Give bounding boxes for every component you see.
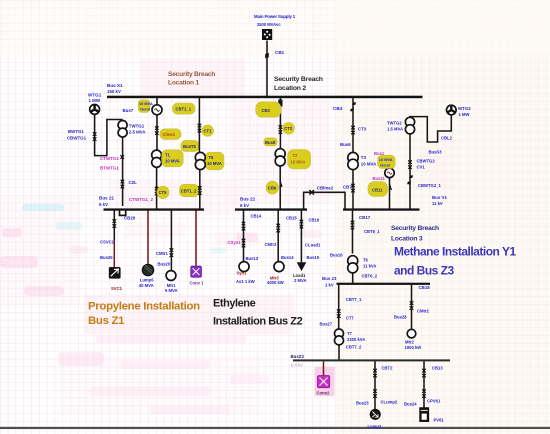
wire Bus 21 to Lump5 xyxy=(147,211,149,265)
svg-text:Lump5: Lump5 xyxy=(140,278,154,283)
svg-text:1 MW: 1 MW xyxy=(89,98,101,103)
wire Gen2 to Bus Y1 xyxy=(389,178,391,210)
svg-text:Mtr2: Mtr2 xyxy=(405,340,415,345)
svg-text:CB13: CB13 xyxy=(432,366,443,371)
svg-text:CBT7_2: CBT7_2 xyxy=(346,345,362,350)
label 10 MVA Gen3 xyxy=(138,100,150,113)
svg-text:and Bus Z3: and Bus Z3 xyxy=(394,264,455,278)
svg-text:CBL2: CBL2 xyxy=(441,136,453,141)
motor Mtr2 xyxy=(407,329,416,338)
wire Bus 21 to SVC1 xyxy=(113,211,115,241)
wire WTG2 to TWTG2 xyxy=(410,115,451,142)
generator Gen3 xyxy=(152,105,162,115)
svg-text:Bus27: Bus27 xyxy=(320,322,333,327)
svg-text:10 MVA: 10 MVA xyxy=(207,161,222,166)
svg-text:CBT2: CBT2 xyxy=(382,366,394,371)
section text: Propylene Installation Bus Z1 xyxy=(88,301,200,328)
svg-text:Location 2: Location 2 xyxy=(274,85,306,92)
svg-text:BusT5: BusT5 xyxy=(183,144,196,149)
svg-text:Bus20: Bus20 xyxy=(158,262,171,267)
svg-text:Cline1: Cline1 xyxy=(163,132,176,137)
svg-text:2 MVA: 2 MVA xyxy=(294,278,307,283)
motor Mtr3 xyxy=(274,262,284,272)
svg-text:CT2: CT2 xyxy=(284,126,293,131)
svg-text:CB11: CB11 xyxy=(372,188,383,193)
svg-text:Bus1: Bus1 xyxy=(374,151,385,156)
svg-text:Gen2: Gen2 xyxy=(380,162,391,167)
svg-text:CT7: CT7 xyxy=(346,316,355,321)
svg-text:CBT7_1: CBT7_1 xyxy=(346,297,362,302)
transformer T7 xyxy=(335,329,344,345)
svg-text:CBline2: CBline2 xyxy=(317,186,334,191)
breaker CB6 open xyxy=(280,182,282,188)
breaker CBT1_1 label xyxy=(173,103,196,114)
breaker CB11 label xyxy=(368,182,388,197)
svg-text:CV1: CV1 xyxy=(417,165,426,170)
svg-text:Propylene Installation: Propylene Installation xyxy=(88,301,200,313)
svg-text:Gen3: Gen3 xyxy=(140,107,151,112)
svg-text:5 MVA: 5 MVA xyxy=(165,288,178,293)
label 10 MVA Gen2 xyxy=(378,155,396,168)
wire T6 to Bus Z3 xyxy=(352,273,354,284)
svg-text:T2: T2 xyxy=(293,153,299,158)
generator Gen2 xyxy=(385,168,394,177)
label T5 10 MVA xyxy=(205,152,224,170)
wire Bus Z2 to PV61 xyxy=(423,361,425,408)
svg-text:CB7: CB7 xyxy=(343,185,352,190)
svg-text:CT5: CT5 xyxy=(159,190,168,195)
section text: Methane Installation Y1 and Bus Z3 xyxy=(394,245,516,278)
breaker CB3 closed xyxy=(278,100,282,107)
svg-text:1.5 MVA: 1.5 MVA xyxy=(387,127,403,132)
svg-text:Bus11: Bus11 xyxy=(373,176,386,181)
transformer T1 xyxy=(152,150,162,167)
wire Bus Z3 to Mtr2 xyxy=(411,285,413,329)
svg-text:CB1: CB1 xyxy=(275,50,285,55)
svg-text:11 kVA: 11 kVA xyxy=(363,264,376,269)
svg-text:Main Power Supply 1: Main Power Supply 1 xyxy=(254,14,296,19)
svg-text:CBT6_1: CBT6_1 xyxy=(364,229,380,234)
svg-text:Security Breach: Security Breach xyxy=(168,71,215,78)
svg-text:TWTG1: TWTG1 xyxy=(129,124,145,129)
svg-text:0.4 kV: 0.4 kV xyxy=(291,363,303,368)
svg-text:WTG2: WTG2 xyxy=(458,106,471,111)
wire Bus X1 to T3 xyxy=(352,97,354,152)
svg-text:CB14: CB14 xyxy=(251,214,262,219)
node BusT5 label xyxy=(181,140,199,151)
svg-text:PV61: PV61 xyxy=(434,418,445,423)
PV array PV61 xyxy=(420,408,429,422)
svg-text:CB17: CB17 xyxy=(359,215,371,220)
svg-text:Bus Z1: Bus Z1 xyxy=(88,315,125,327)
svg-text:BTWTG1: BTWTG1 xyxy=(100,166,119,171)
transformer T2 xyxy=(275,149,285,166)
svg-text:CBT1_2: CBT1_2 xyxy=(181,189,197,194)
section text: Security Breach Location 3 xyxy=(391,225,439,243)
wire T1 to Bus 21 xyxy=(156,167,158,209)
svg-text:CT1: CT1 xyxy=(204,129,213,134)
svg-text:CB15: CB15 xyxy=(286,216,297,221)
transformer T3 xyxy=(348,152,358,169)
svg-text:TWTG2: TWTG2 xyxy=(387,121,402,126)
svg-text:Bus 21: Bus 21 xyxy=(99,196,115,201)
node Bus8 label xyxy=(264,138,277,146)
wire T7 to Bus Z2 xyxy=(338,345,340,361)
wire Bus 22 to Syn1 xyxy=(243,211,245,262)
load Load1 xyxy=(297,262,307,271)
svg-text:Security Breach: Security Breach xyxy=(391,225,439,232)
section text: Security Breach Location 1 xyxy=(168,71,215,87)
bus Bus Y1 11 kV xyxy=(343,208,420,210)
wire TWTG2 to Bus Y1 xyxy=(409,134,411,210)
utility grid U1 Main Power Supply 1 xyxy=(254,14,296,40)
svg-text:10 MVA: 10 MVA xyxy=(139,101,153,106)
converter Conv2 xyxy=(318,376,330,388)
svg-text:BusZ2: BusZ2 xyxy=(291,354,305,359)
pink highlight behind Conv2 xyxy=(315,367,335,397)
transformer T6 xyxy=(348,256,358,273)
svg-text:CBWTG2_1: CBWTG2_1 xyxy=(418,183,441,188)
svg-text:2.5 MVA: 2.5 MVA xyxy=(129,130,147,135)
svg-text:Bus24: Bus24 xyxy=(404,402,417,407)
breaker CBT1_2 label xyxy=(179,184,198,196)
wind turbine WTG2 xyxy=(447,105,472,117)
svg-text:Syn1: Syn1 xyxy=(237,271,248,276)
wire T3 to Bus Y1 xyxy=(352,169,354,209)
motor Mtr1 xyxy=(166,271,176,281)
wire utility to Bus X1 xyxy=(266,41,268,97)
synchronous machine Syn1 xyxy=(239,262,249,272)
SVC SVC1 xyxy=(109,267,121,279)
fuse CB20 on Bus 21 xyxy=(120,210,126,216)
wire Gen3 to T1 xyxy=(156,97,158,150)
label T2 10 MVA xyxy=(288,150,311,169)
wire Bus X1 to T5 xyxy=(198,97,200,152)
svg-text:Location 1: Location 1 xyxy=(168,79,200,86)
breaker C2L marks xyxy=(121,180,125,189)
svg-text:Lump2: Lump2 xyxy=(368,424,382,429)
bus Bus 22 6 kV xyxy=(235,208,307,210)
svg-text:1000 kW: 1000 kW xyxy=(405,345,422,350)
svg-text:Bus23: Bus23 xyxy=(356,401,369,406)
svg-text:6 kV: 6 kV xyxy=(240,203,249,208)
svg-text:CBT6_2: CBT6_2 xyxy=(362,274,378,279)
svg-text:Bus X1: Bus X1 xyxy=(107,83,123,88)
svg-text:CLoad1: CLoad1 xyxy=(305,243,321,248)
svg-text:CB4: CB4 xyxy=(333,106,343,111)
svg-text:T6: T6 xyxy=(363,258,369,263)
svg-text:CSyn1: CSyn1 xyxy=(228,240,242,245)
svg-text:CB20: CB20 xyxy=(124,216,136,221)
wire Bus 22 to Load1 xyxy=(300,211,302,263)
breaker CB1 xyxy=(265,53,269,59)
svg-text:CTWTG1_2: CTWTG1_2 xyxy=(129,197,154,202)
svg-text:Bus16: Bus16 xyxy=(330,253,343,258)
wire T2 to Bus 22 xyxy=(279,166,281,210)
svg-text:CB6: CB6 xyxy=(268,186,277,191)
svg-text:T1: T1 xyxy=(165,153,171,158)
bus Bus X1 150kV xyxy=(107,96,423,99)
svg-text:Bus28: Bus28 xyxy=(394,315,407,320)
svg-text:CLump2: CLump2 xyxy=(381,400,398,405)
wire Bus Y1 to T6 xyxy=(352,211,354,254)
svg-text:CBT1_1: CBT1_1 xyxy=(176,107,192,112)
svg-text:T3: T3 xyxy=(361,155,367,160)
svg-text:Location 3: Location 3 xyxy=(391,236,423,243)
wire WTG1 down loop to TWTG1 xyxy=(95,114,123,155)
CT CT2 label xyxy=(283,122,295,134)
svg-text:1 kV: 1 kV xyxy=(325,283,334,288)
svg-text:Installation Bus Z2: Installation Bus Z2 xyxy=(213,316,303,328)
section text: Ethylene Installation Bus Z2 xyxy=(213,298,303,328)
lumped load Lump5 xyxy=(142,264,153,275)
svg-text:Bus7: Bus7 xyxy=(123,108,134,113)
svg-text:Security Breach: Security Breach xyxy=(274,76,323,83)
svg-text:T7: T7 xyxy=(347,331,353,336)
line Cline1 label xyxy=(160,129,181,140)
svg-text:4000 kW: 4000 kW xyxy=(267,280,284,285)
svg-text:10 MVA: 10 MVA xyxy=(165,159,180,164)
svg-text:Bus14: Bus14 xyxy=(281,255,294,260)
transformer T5 xyxy=(195,152,205,169)
wire T5 to Bus 21 xyxy=(199,170,201,210)
svg-text:Methane Installation Y1: Methane Installation Y1 xyxy=(394,245,516,259)
transformer TWTG2 xyxy=(387,117,415,134)
svg-text:10 MVA: 10 MVA xyxy=(379,157,393,162)
bottom frame line xyxy=(0,427,550,429)
transformer TWTG1 xyxy=(118,121,146,138)
wire Bus 21 to Conv1 xyxy=(195,211,197,267)
svg-text:Bus6: Bus6 xyxy=(340,142,351,147)
wire Bus Z2 to Conv2 xyxy=(323,361,325,375)
wire Bus X1 to T2 xyxy=(279,97,281,149)
svg-text:C2L: C2L xyxy=(129,180,138,185)
svg-text:CT3: CT3 xyxy=(358,127,367,132)
svg-text:11 kV: 11 kV xyxy=(432,201,443,206)
tie wire Bus 22 to Bus Y1 CBline2 xyxy=(304,192,345,209)
wind turbine WTG1 xyxy=(88,93,102,115)
svg-text:CMtr3: CMtr3 xyxy=(265,242,278,247)
converter Conv1 xyxy=(191,266,202,277)
svg-text:CSVC1: CSVC1 xyxy=(100,240,115,245)
svg-text:150 kV: 150 kV xyxy=(107,89,121,94)
svg-text:Conv2: Conv2 xyxy=(317,391,330,396)
pink wash artifacts xyxy=(0,58,460,415)
wire TWTG1 down to Bus 21 xyxy=(122,137,124,206)
bus Bus 21 6 kV xyxy=(104,208,205,210)
svg-text:Bus25: Bus25 xyxy=(100,255,113,260)
wire Bus Z2 to Lump2 xyxy=(374,361,376,409)
svg-text:CBWTG1: CBWTG1 xyxy=(67,136,87,141)
svg-text:Bus15: Bus15 xyxy=(307,255,320,260)
svg-text:40 MVA: 40 MVA xyxy=(139,283,154,288)
svg-text:BWTG1: BWTG1 xyxy=(68,129,84,134)
label T1 10 MVA xyxy=(162,150,183,167)
svg-text:Bus8: Bus8 xyxy=(265,140,276,145)
bus Bus Z3 1 kV xyxy=(337,283,431,285)
svg-text:1 MW: 1 MW xyxy=(459,112,470,117)
svg-text:Bus13: Bus13 xyxy=(246,256,259,261)
svg-text:CPV61: CPV61 xyxy=(427,399,441,404)
svg-text:10 MVA: 10 MVA xyxy=(291,160,306,165)
bus Bus Z2 0.4 kV xyxy=(293,359,450,361)
svg-text:CMtr2: CMtr2 xyxy=(417,309,430,314)
svg-text:Bus 22: Bus 22 xyxy=(240,197,256,202)
svg-text:2500 MVAsc: 2500 MVAsc xyxy=(257,22,281,27)
svg-text:Bus 23: Bus 23 xyxy=(322,276,337,281)
section text: Security Breach Location 2 xyxy=(274,76,323,92)
svg-text:Ax1 1 kW: Ax1 1 kW xyxy=(236,279,255,284)
CT CT5 label xyxy=(157,186,169,199)
svg-text:Conv 1: Conv 1 xyxy=(190,281,205,286)
svg-text:CBWTG2: CBWTG2 xyxy=(417,159,436,164)
svg-text:CB18: CB18 xyxy=(419,285,431,290)
wire Bus 22 to Mtr3 xyxy=(277,211,279,262)
svg-text:2200 kVA: 2200 kVA xyxy=(347,337,365,342)
svg-text:CMtr1: CMtr1 xyxy=(156,251,169,256)
svg-text:CB16: CB16 xyxy=(309,218,320,223)
svg-text:Bus V1: Bus V1 xyxy=(432,195,447,200)
breaker BWTG1 marks xyxy=(93,132,97,141)
wire Bus Z3 to T7 xyxy=(338,285,340,329)
svg-text:SVC1: SVC1 xyxy=(111,286,123,291)
wire Bus 21 to Mtr1 xyxy=(170,211,172,271)
svg-text:Ethylene: Ethylene xyxy=(213,298,256,310)
svg-text:BusS3: BusS3 xyxy=(429,150,443,155)
svg-text:CB3: CB3 xyxy=(262,108,271,113)
lumped load Lump2 xyxy=(370,409,380,419)
svg-text:CTWTG1: CTWTG1 xyxy=(100,156,119,161)
svg-text:WTG1: WTG1 xyxy=(88,93,102,98)
svg-text:6 kV: 6 kV xyxy=(99,202,108,207)
svg-text:T5: T5 xyxy=(209,155,215,160)
svg-text:10 MVA: 10 MVA xyxy=(361,162,377,167)
CT CT1 label xyxy=(202,125,214,137)
